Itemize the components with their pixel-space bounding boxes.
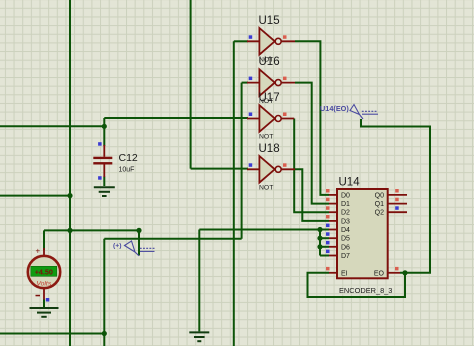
inverter U16 bbox=[247, 56, 295, 105]
svg-text:U18: U18 bbox=[259, 143, 280, 155]
wire: U17 input feed y=118 bbox=[104, 117, 248, 119]
encoder U14 pin stubs right Q0-Q2, EO bbox=[388, 195, 407, 273]
svg-text:(+): (+) bbox=[113, 243, 122, 250]
wire: D4-D7 strap x=320 bbox=[319, 230, 321, 256]
svg-text:D5: D5 bbox=[341, 236, 350, 243]
wire: strap stub D5 bbox=[320, 237, 329, 239]
wire: U15 riser x=233.8 down to bottom bbox=[233, 41, 235, 346]
wire: bottom bus y=333.5 bbox=[0, 333, 104, 335]
wire: horizontal from left edge to cap node y=126.3 bbox=[0, 125, 104, 127]
svg-text:U17: U17 bbox=[259, 92, 280, 104]
encoder U14 pin stubs left D0-D7 bbox=[329, 195, 337, 273]
wire: strap stub D4 bbox=[320, 229, 329, 231]
probe (+) on battery net bbox=[113, 241, 155, 256]
wire: U15 input feed y=41.3 bbox=[234, 40, 248, 42]
svg-text:Q1: Q1 bbox=[375, 201, 384, 208]
wire: EO to right riser bbox=[361, 119, 430, 273]
capacitor C12 plates bbox=[93, 157, 112, 159]
wire: probe stem x=139 bbox=[138, 230, 140, 255]
encoder U14 pin squares right bbox=[395, 189, 399, 270]
wire: battery top riser x=44 bbox=[43, 230, 45, 250]
svg-text:NOT: NOT bbox=[259, 185, 273, 192]
svg-text:U15: U15 bbox=[259, 15, 280, 27]
svg-text:D3: D3 bbox=[341, 218, 350, 225]
svg-text:NOT: NOT bbox=[259, 134, 273, 141]
inverter U18 bbox=[247, 143, 295, 192]
battery ground stem bbox=[43, 300, 45, 308]
svg-text:EI: EI bbox=[341, 270, 348, 277]
wire: D4 feed y=229.5 bbox=[199, 229, 320, 231]
wire: strap stub D6 bbox=[320, 246, 329, 248]
wire: long vertical rail x=70 top to bottom bbox=[69, 0, 71, 346]
battery leads bbox=[43, 248, 45, 300]
inverter U15 bbox=[247, 15, 295, 64]
wire: U17 output riser x=294.2 to D2 bbox=[294, 119, 329, 213]
wire: U16-input net horizontal y=238.2 from corner x=104.3 bbox=[104, 238, 241, 240]
svg-text:U16: U16 bbox=[259, 56, 280, 68]
svg-text:D4: D4 bbox=[341, 227, 350, 234]
battery minus terminal label bbox=[36, 295, 41, 297]
encoder U14 body bbox=[337, 189, 388, 278]
svg-text:ENCODER_8_3: ENCODER_8_3 bbox=[339, 286, 392, 295]
node: battery line / x70 rail junction bbox=[67, 228, 72, 233]
svg-text:Volts: Volts bbox=[36, 281, 51, 288]
node: rail x70 / y195.6 junction bbox=[67, 193, 72, 198]
wire: vertical x=104.3 down from corner to bottom bbox=[103, 239, 105, 346]
svg-text:D7: D7 bbox=[341, 253, 350, 260]
svg-text:EO: EO bbox=[374, 270, 385, 277]
node: cap / U17 feed junction bbox=[102, 124, 107, 129]
encoder U14 pin squares left bbox=[326, 189, 330, 270]
wire: U18 riser x=190.6 from top bbox=[190, 0, 192, 169]
capacitor C12 leads bbox=[103, 145, 105, 177]
svg-text:U14(EO): U14(EO) bbox=[320, 104, 349, 113]
wire: U15 output riser x=320.4 to D0 bbox=[295, 41, 329, 195]
inverter U17 bbox=[247, 92, 294, 141]
ground under battery bbox=[30, 308, 59, 317]
svg-text:C12: C12 bbox=[119, 152, 138, 164]
svg-text:D0: D0 bbox=[341, 192, 350, 199]
node: strap D5 junction bbox=[317, 236, 322, 241]
wire: strap stub D7 bbox=[320, 255, 329, 257]
node: strap D6 junction bbox=[317, 244, 322, 249]
battery voltage display bbox=[31, 266, 57, 276]
svg-text:10uF: 10uF bbox=[119, 167, 135, 174]
wire: battery node horizontal y=230.4 bbox=[44, 229, 139, 231]
wire: U16 riser x=241.6 bbox=[241, 83, 243, 239]
svg-text:Q2: Q2 bbox=[375, 210, 384, 217]
svg-text:D2: D2 bbox=[341, 210, 350, 217]
wire: U18 output riser x=302.3 to D3 bbox=[295, 169, 329, 221]
svg-text:+4.50: +4.50 bbox=[35, 267, 53, 276]
wire: vertical cap top branch x=104.3 bbox=[103, 118, 105, 146]
battery body circle bbox=[28, 256, 60, 288]
wire: U16 input feed y=82.6 bbox=[242, 82, 248, 84]
svg-text:Q0: Q0 bbox=[375, 192, 384, 199]
capacitor C12 pin squares bbox=[98, 142, 102, 146]
node: EO junction bbox=[402, 270, 407, 275]
wire: U16 output riser x=311.7 to D1 bbox=[295, 83, 329, 204]
node: strap D4 junction bbox=[317, 227, 322, 232]
svg-text:D1: D1 bbox=[341, 201, 350, 208]
wire: horizontal from left edge y=195.6 bbox=[0, 195, 70, 197]
svg-text:+: + bbox=[36, 247, 41, 256]
node: bottom bus junction bbox=[102, 331, 107, 336]
ground for D4-D7 rail bbox=[189, 332, 209, 341]
wire: ground riser x=199.3 bbox=[198, 230, 200, 332]
svg-text:U14: U14 bbox=[339, 177, 361, 189]
wire: U18 input feed y=168.6 bbox=[191, 168, 248, 170]
ground under capacitor bbox=[94, 187, 115, 196]
svg-text:D6: D6 bbox=[341, 244, 350, 251]
battery bottom pin square bbox=[46, 298, 50, 302]
encoder U14 pin name labels bbox=[341, 192, 385, 277]
probe U14(EO) voltage probe bbox=[320, 104, 378, 119]
wire: cap bottom to ground bbox=[103, 177, 105, 187]
wire: EI loop left bbox=[308, 273, 406, 297]
node: battery / probe junction bbox=[136, 228, 141, 233]
